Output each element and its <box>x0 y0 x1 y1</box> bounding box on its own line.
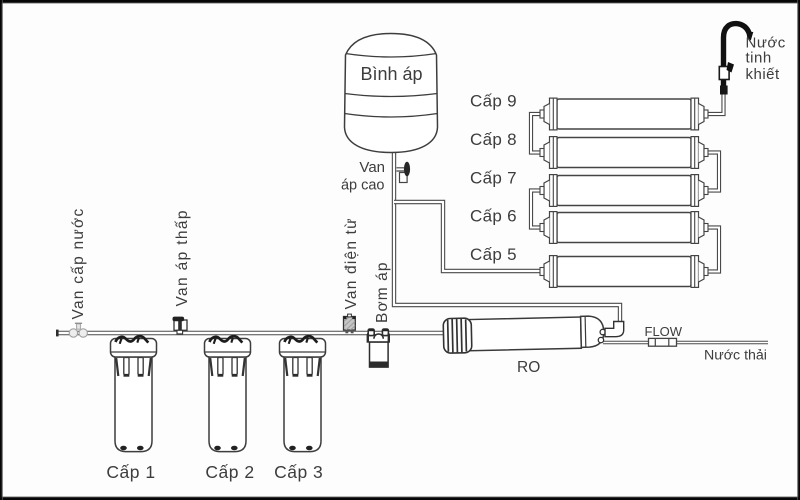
svg-text:Cấp 6: Cấp 6 <box>470 207 517 226</box>
filter housing Cấp 2 <box>205 336 251 451</box>
faucet Nước tinh khiết <box>719 24 785 95</box>
svg-text:Cấp 5: Cấp 5 <box>470 245 517 264</box>
filter housing Cấp 1 <box>111 336 157 451</box>
valve Van áp thấp (low pressure switch) <box>173 209 192 334</box>
filter cartridge Cấp 6 <box>540 212 708 244</box>
svg-text:Van: Van <box>359 159 385 176</box>
wire: main supply pipe from inlet to RO <box>56 330 446 337</box>
svg-text:Cấp 3: Cấp 3 <box>274 462 323 482</box>
elbow fitting at RO outlet <box>605 322 624 337</box>
svg-text:áp cao: áp cao <box>341 177 385 193</box>
filter cartridge Cấp 8 <box>540 137 708 169</box>
filter cartridge Cấp 7 <box>540 175 708 207</box>
wire: branch feed to Cấp 5 <box>394 202 546 271</box>
svg-text:RO: RO <box>517 359 540 376</box>
svg-text:Cấp 1: Cấp 1 <box>106 462 155 482</box>
svg-text:Cấp 2: Cấp 2 <box>205 462 254 482</box>
wire: U connector Cấp 7 / Cấp 6 left <box>531 191 545 228</box>
filter housing Cấp 3 <box>280 336 326 451</box>
svg-text:Cấp 7: Cấp 7 <box>470 168 517 187</box>
wire: waste line with end <box>603 341 768 344</box>
filter cartridge Cấp 5 <box>540 256 708 288</box>
filter cartridge Cấp 9 <box>540 98 708 130</box>
svg-text:Nước thải: Nước thải <box>704 348 767 364</box>
flow restrictor FLOW <box>645 324 683 346</box>
svg-text:Van áp thấp: Van áp thấp <box>174 209 191 306</box>
valve Van áp cao on tank riser <box>341 159 410 194</box>
svg-text:Van điện từ: Van điện từ <box>343 217 360 309</box>
wire: U connector Cấp 9 / Cấp 8 left <box>531 114 545 153</box>
valve Van điện từ (solenoid) <box>343 217 360 333</box>
tank Bình áp <box>345 34 438 153</box>
svg-text:khiết: khiết <box>746 66 781 83</box>
svg-text:Van cấp nước: Van cấp nước <box>70 208 87 320</box>
wire: U connector Cấp 8 / Cấp 7 right <box>703 153 719 191</box>
svg-text:Cấp 9: Cấp 9 <box>470 92 517 111</box>
wire: tank riser pipe and permeate line to RO elbow <box>394 150 620 323</box>
valve Van cấp nước (inlet ball valve) <box>69 208 87 338</box>
wire: U connector Cấp 6 / Cấp 5 right <box>703 228 719 272</box>
svg-text:Cấp 8: Cấp 8 <box>470 130 517 149</box>
wire: Cấp 9 outlet to faucet riser <box>703 94 724 114</box>
svg-text:Bình áp: Bình áp <box>360 64 422 84</box>
pump Bơm áp <box>367 261 391 367</box>
svg-text:tinh: tinh <box>746 50 772 67</box>
svg-text:FLOW: FLOW <box>645 324 683 339</box>
svg-text:Bơm áp: Bơm áp <box>374 261 391 323</box>
RO membrane <box>443 315 606 353</box>
